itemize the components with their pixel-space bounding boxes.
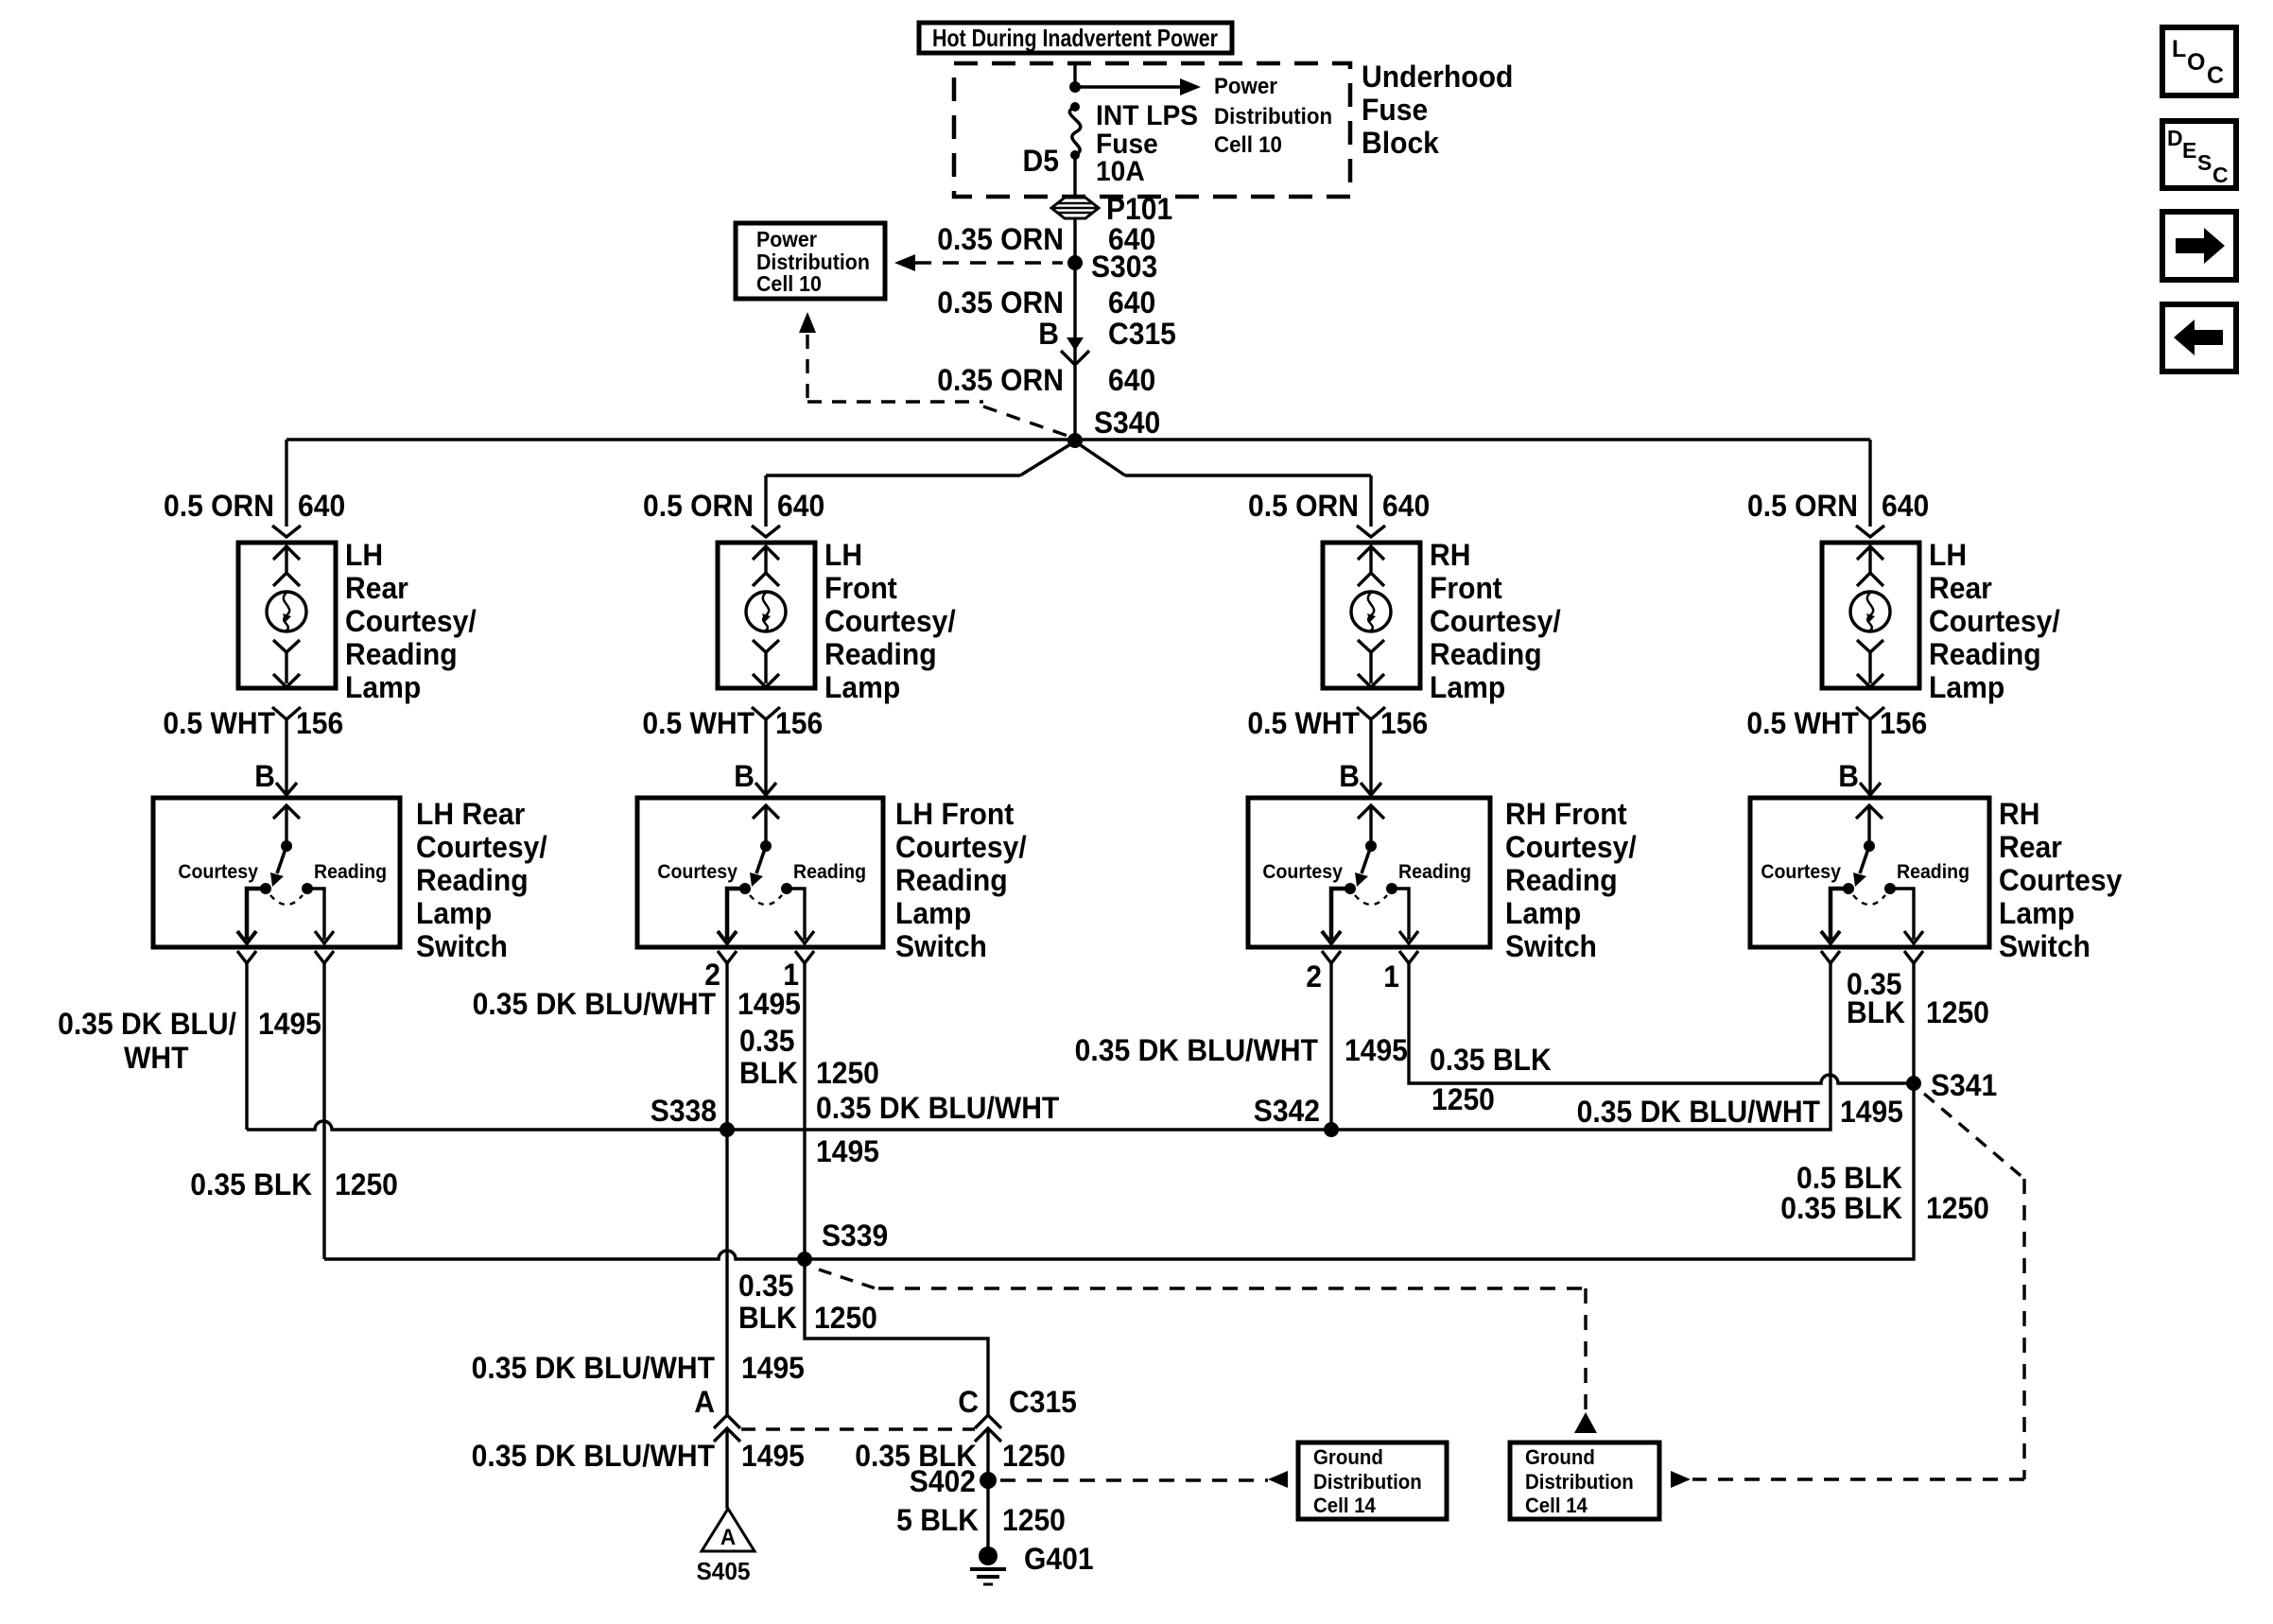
arrow left xyxy=(1268,1471,1288,1488)
svg-text:0.35 DK BLU/WHT: 0.35 DK BLU/WHT xyxy=(472,1439,715,1473)
svg-text:0.5 WHT: 0.5 WHT xyxy=(642,706,755,740)
svg-text:Lamp: Lamp xyxy=(895,896,971,930)
svg-text:D5: D5 xyxy=(1023,144,1059,178)
svg-text:S338: S338 xyxy=(651,1094,717,1128)
svg-text:5 BLK: 5 BLK xyxy=(896,1503,979,1537)
svg-text:0.35 DK BLU/WHT: 0.35 DK BLU/WHT xyxy=(472,1351,715,1385)
svg-text:2: 2 xyxy=(1306,959,1322,993)
svg-text:0.35 DK BLU/WHT: 0.35 DK BLU/WHT xyxy=(473,987,716,1021)
svg-text:C: C xyxy=(2212,163,2229,187)
dashed S402 to Ground Distribution xyxy=(1000,1478,1268,1481)
svg-text:0.35 DK BLU/: 0.35 DK BLU/ xyxy=(58,1007,236,1041)
svg-text:0.35: 0.35 xyxy=(739,1024,795,1058)
wire into fuse block xyxy=(1073,63,1076,86)
svg-text:LH: LH xyxy=(1929,538,1967,572)
svg-text:Underhood: Underhood xyxy=(1362,60,1513,94)
svg-text:1250: 1250 xyxy=(1002,1439,1066,1473)
svg-text:Reading: Reading xyxy=(1398,861,1471,883)
svg-text:S341: S341 xyxy=(1931,1068,1997,1102)
underhood fuse block (dashed box) xyxy=(954,63,1350,197)
svg-text:Courtesy: Courtesy xyxy=(178,861,258,883)
svg-text:Courtesy: Courtesy xyxy=(1999,863,2123,897)
wire 0.5 WHT 156 branch 4 xyxy=(1856,707,1884,719)
node S341 xyxy=(1906,1076,1921,1091)
switch lever 3 xyxy=(1362,846,1371,873)
lamp L1: LH Rear Courtesy/ Reading Lamp xyxy=(238,543,336,688)
svg-text:1495: 1495 xyxy=(258,1007,321,1041)
node S339 xyxy=(797,1252,812,1267)
svg-text:0.5 ORN: 0.5 ORN xyxy=(1248,489,1359,523)
leg chevrons below switch 3 xyxy=(1322,951,1341,963)
svg-text:640: 640 xyxy=(1382,489,1430,523)
wire fuse to P101 xyxy=(1073,157,1076,198)
svg-text:0.5 WHT: 0.5 WHT xyxy=(1247,706,1360,740)
svg-text:Courtesy/: Courtesy/ xyxy=(824,604,956,638)
svg-text:0.35 BLK: 0.35 BLK xyxy=(1430,1043,1552,1077)
svg-text:Distribution: Distribution xyxy=(1313,1470,1422,1494)
svg-text:Reading: Reading xyxy=(1929,637,2041,671)
switch SW2: LH Front Courtesy/ Reading Lamp Switch xyxy=(637,798,883,947)
svg-text:Ground: Ground xyxy=(1313,1445,1383,1469)
svg-text:LH Front: LH Front xyxy=(895,797,1014,831)
svg-text:Lamp: Lamp xyxy=(1929,670,2004,704)
node S338 xyxy=(720,1122,735,1137)
icon arrow left xyxy=(2162,304,2236,371)
svg-text:Hot During Inadvertent Power: Hot During Inadvertent Power xyxy=(932,24,1218,52)
svg-text:Reading: Reading xyxy=(1430,637,1542,671)
wire 0.5 ORN 640 branch 2 xyxy=(764,475,767,527)
svg-text:S402: S402 xyxy=(910,1464,976,1498)
arrow right xyxy=(1671,1471,1691,1488)
svg-text:RH Front: RH Front xyxy=(1505,797,1627,831)
switch SW3: RH Front Courtesy/ Reading Lamp Switch xyxy=(1248,798,1490,947)
svg-text:0.35 BLK: 0.35 BLK xyxy=(1780,1191,1902,1225)
box Ground Distribution Cell 14 (left) xyxy=(1298,1443,1447,1519)
contacts xyxy=(260,883,271,894)
svg-text:O: O xyxy=(2187,49,2205,76)
splice triangle S405 xyxy=(702,1509,755,1551)
svg-text:Lamp: Lamp xyxy=(345,670,421,704)
wire 0.5 WHT 156 branch 1 xyxy=(272,707,301,719)
svg-text:B: B xyxy=(1838,759,1859,793)
svg-text:LH: LH xyxy=(345,538,383,572)
icon LOC xyxy=(2162,27,2236,95)
svg-text:C: C xyxy=(2207,62,2224,89)
svg-text:1250: 1250 xyxy=(1926,1191,1989,1225)
svg-text:0.35 ORN: 0.35 ORN xyxy=(937,222,1064,256)
svg-text:Reading: Reading xyxy=(895,863,1008,897)
svg-text:E: E xyxy=(2182,138,2196,163)
dashed arrow S303 to Power Distribution box xyxy=(915,261,1063,264)
svg-text:0.5 ORN: 0.5 ORN xyxy=(643,489,754,523)
wire 1250 net: to S339 and up to S341 (hop over x769) xyxy=(324,1083,1914,1259)
svg-text:Courtesy/: Courtesy/ xyxy=(416,830,547,864)
svg-text:A: A xyxy=(694,1385,715,1419)
svg-text:Switch: Switch xyxy=(1999,929,2091,963)
svg-text:BLK: BLK xyxy=(739,1056,798,1090)
svg-text:B: B xyxy=(254,759,275,793)
wire: diagonal branches from S340 xyxy=(1020,441,1125,475)
wire label 0.35 ORN 640 xyxy=(937,285,1155,320)
svg-text:Courtesy: Courtesy xyxy=(657,861,737,883)
switch SW4: RH Rear Courtesy Lamp Switch xyxy=(1750,798,1989,947)
svg-text:156: 156 xyxy=(1380,706,1428,740)
svg-text:Lamp: Lamp xyxy=(1999,896,2074,930)
svg-text:B: B xyxy=(1339,759,1360,793)
svg-text:Reading: Reading xyxy=(314,861,387,883)
svg-text:1250: 1250 xyxy=(1431,1082,1495,1116)
svg-text:Reading: Reading xyxy=(1897,861,1969,883)
connector C315 pin B (top) xyxy=(1038,317,1176,351)
svg-text:Distribution: Distribution xyxy=(756,250,870,274)
node S342 xyxy=(1324,1122,1339,1137)
svg-text:LH Rear: LH Rear xyxy=(416,797,525,831)
lamp L2: LH Front Courtesy/ Reading Lamp xyxy=(718,543,815,688)
leg chevrons below switch 4 xyxy=(1821,951,1840,963)
node S402 xyxy=(980,1472,997,1489)
svg-text:Block: Block xyxy=(1362,126,1440,160)
switch lever 1 xyxy=(277,846,286,873)
arrow to Power Distribution Cell 10 (right) xyxy=(1075,85,1180,88)
ground G401 xyxy=(979,1546,998,1565)
fuse INT LPS 10A xyxy=(1070,102,1080,112)
contacts xyxy=(739,883,751,894)
svg-text:Courtesy/: Courtesy/ xyxy=(895,830,1027,864)
svg-text:1250: 1250 xyxy=(335,1167,398,1201)
wire label 0.35 ORN 640 xyxy=(937,363,1155,397)
leg chevrons below switch 2 xyxy=(718,951,737,963)
svg-text:Front: Front xyxy=(824,571,897,605)
svg-text:640: 640 xyxy=(1108,363,1155,397)
svg-text:Switch: Switch xyxy=(1505,929,1597,963)
svg-text:Courtesy/: Courtesy/ xyxy=(1505,830,1637,864)
svg-text:0.35 DK BLU/WHT: 0.35 DK BLU/WHT xyxy=(1577,1095,1820,1129)
bulb circle lamp 4 xyxy=(1850,592,1890,631)
wire: S339 down to C315 pin C xyxy=(805,1259,988,1415)
svg-text:S340: S340 xyxy=(1094,406,1160,440)
svg-text:Fuse: Fuse xyxy=(1362,93,1428,127)
svg-text:Courtesy/: Courtesy/ xyxy=(1430,604,1561,638)
svg-text:156: 156 xyxy=(1880,706,1927,740)
svg-text:Lamp: Lamp xyxy=(1430,670,1505,704)
switch SW1: LH Rear Courtesy/ Reading Lamp Switch xyxy=(153,798,400,947)
svg-text:Reading: Reading xyxy=(1505,863,1618,897)
svg-text:Switch: Switch xyxy=(895,929,987,963)
wire: main feed bus from S340 xyxy=(286,438,1870,441)
svg-text:Power: Power xyxy=(1214,73,1277,98)
svg-text:RH: RH xyxy=(1999,797,2039,831)
svg-text:Front: Front xyxy=(1430,571,1502,605)
svg-text:640: 640 xyxy=(1882,489,1929,523)
svg-text:Rear: Rear xyxy=(1999,830,2062,864)
svg-text:Distribution: Distribution xyxy=(1525,1470,1634,1494)
svg-text:0.35 DK BLU/WHT: 0.35 DK BLU/WHT xyxy=(1075,1033,1318,1067)
svg-text:A: A xyxy=(720,1524,736,1549)
svg-text:L: L xyxy=(2172,36,2186,62)
svg-text:0.35 DK BLU/WHT: 0.35 DK BLU/WHT xyxy=(816,1091,1059,1125)
svg-text:1495: 1495 xyxy=(737,987,801,1021)
svg-text:640: 640 xyxy=(1108,285,1155,320)
svg-text:0.35: 0.35 xyxy=(738,1269,794,1303)
svg-text:640: 640 xyxy=(777,489,824,523)
wire: SW2 legs down xyxy=(727,963,805,1259)
contacts xyxy=(1843,883,1854,894)
dashed route S341 to Ground Distribution (right) xyxy=(1924,1094,2024,1179)
contacts xyxy=(1345,883,1356,894)
svg-text:BLK: BLK xyxy=(1847,995,1905,1029)
bulb circle lamp 2 xyxy=(746,592,786,631)
svg-text:0.35 BLK: 0.35 BLK xyxy=(190,1167,312,1201)
svg-text:Courtesy: Courtesy xyxy=(1262,861,1343,883)
svg-text:Reading: Reading xyxy=(416,863,529,897)
svg-text:Distribution: Distribution xyxy=(1214,103,1332,129)
svg-text:1250: 1250 xyxy=(1926,995,1989,1029)
svg-text:BLK: BLK xyxy=(738,1301,797,1335)
svg-text:1250: 1250 xyxy=(1002,1503,1066,1537)
svg-text:S303: S303 xyxy=(1091,250,1157,284)
icon DESC xyxy=(2162,121,2236,188)
wire: S338 down to connector C315 pin A xyxy=(725,1130,728,1415)
svg-text:1495: 1495 xyxy=(1345,1033,1408,1067)
svg-text:Cell 14: Cell 14 xyxy=(1313,1494,1376,1517)
svg-text:S339: S339 xyxy=(822,1218,888,1253)
svg-text:1: 1 xyxy=(1383,959,1399,993)
wire label 0.35 ORN 640 xyxy=(937,222,1155,256)
svg-text:Ground: Ground xyxy=(1525,1445,1595,1469)
box Power Distribution Cell 10 (left) xyxy=(736,223,885,299)
node S340 xyxy=(1067,433,1083,448)
svg-text:0.5 ORN: 0.5 ORN xyxy=(164,489,274,523)
title box "Hot During Inadvertent Power" xyxy=(919,23,1232,53)
svg-text:Courtesy/: Courtesy/ xyxy=(1929,604,2060,638)
svg-text:INT LPS: INT LPS xyxy=(1096,100,1198,131)
leg chevrons below switch 1 xyxy=(237,951,256,963)
svg-text:C315: C315 xyxy=(1108,317,1176,351)
svg-text:S: S xyxy=(2197,150,2212,175)
lamp L3: RH Front Courtesy/ Reading Lamp xyxy=(1323,543,1420,688)
dashed route S339 to Ground Distribution (right box) xyxy=(819,1270,878,1289)
svg-text:640: 640 xyxy=(298,489,345,523)
svg-text:0.5 WHT: 0.5 WHT xyxy=(1746,706,1859,740)
svg-text:Cell 10: Cell 10 xyxy=(1214,131,1282,157)
svg-text:1495: 1495 xyxy=(741,1351,805,1385)
wire: SW4 right leg down xyxy=(1912,963,1915,1083)
svg-text:Cell 10: Cell 10 xyxy=(756,271,822,296)
wire 0.5 ORN 640 branch 4 xyxy=(1868,440,1871,527)
connector C315 pin C chevrons xyxy=(975,1415,1001,1442)
svg-text:Reading: Reading xyxy=(345,637,458,671)
wire 0.5 WHT 156 branch 3 xyxy=(1357,707,1385,719)
svg-text:Cell 14: Cell 14 xyxy=(1525,1494,1588,1517)
wire: SW1 reading leg down xyxy=(322,963,325,1259)
svg-text:P101: P101 xyxy=(1106,192,1172,226)
svg-text:10A: 10A xyxy=(1096,156,1145,187)
wire P101 to S340 xyxy=(1073,218,1076,440)
svg-text:0.5 BLK: 0.5 BLK xyxy=(1796,1161,1903,1195)
svg-text:1250: 1250 xyxy=(816,1056,879,1090)
node S303 xyxy=(1067,255,1083,270)
svg-text:S405: S405 xyxy=(696,1558,750,1585)
svg-text:Switch: Switch xyxy=(416,929,508,963)
wire: SW1 courtesy leg down xyxy=(245,963,248,1130)
svg-text:Reading: Reading xyxy=(824,637,937,671)
svg-text:1495: 1495 xyxy=(741,1439,805,1473)
svg-text:Rear: Rear xyxy=(1929,571,1992,605)
svg-text:156: 156 xyxy=(775,706,823,740)
svg-text:0.35 ORN: 0.35 ORN xyxy=(937,285,1064,320)
svg-text:Lamp: Lamp xyxy=(824,670,900,704)
wire 1495 net: S338 - S342 - SW4 left leg (with hop over x343) xyxy=(247,963,1831,1130)
svg-text:1495: 1495 xyxy=(1840,1095,1903,1129)
svg-text:Reading: Reading xyxy=(793,861,866,883)
svg-text:D: D xyxy=(2167,126,2183,150)
switch lever 2 xyxy=(756,846,766,873)
svg-text:1250: 1250 xyxy=(814,1301,877,1335)
svg-text:Courtesy/: Courtesy/ xyxy=(345,604,477,638)
dashed connector line C315 xyxy=(741,1427,975,1430)
svg-text:C315: C315 xyxy=(1009,1385,1077,1419)
connector P101 (grommet) xyxy=(1051,198,1099,218)
svg-text:LH: LH xyxy=(824,538,862,572)
svg-text:156: 156 xyxy=(296,706,343,740)
dashed route S340 to Power Distribution box xyxy=(799,312,816,333)
svg-text:S342: S342 xyxy=(1254,1094,1320,1128)
svg-text:B: B xyxy=(1038,317,1059,351)
svg-text:0.5 ORN: 0.5 ORN xyxy=(1747,489,1858,523)
wire 0.5 ORN 640 branch 1 xyxy=(285,440,287,527)
svg-text:0.5 WHT: 0.5 WHT xyxy=(163,706,275,740)
box Ground Distribution Cell 14 (right) xyxy=(1510,1443,1659,1519)
wire: SW3 leg1 to S341 (hop over x1936) xyxy=(1409,963,1914,1083)
svg-text:C: C xyxy=(958,1385,979,1419)
bulb circle lamp 1 xyxy=(267,592,306,631)
wire: SW3 leg2 down to S342 xyxy=(1329,963,1332,1130)
svg-text:1495: 1495 xyxy=(816,1134,879,1168)
svg-text:Rear: Rear xyxy=(345,571,408,605)
svg-text:RH: RH xyxy=(1430,538,1470,572)
lamp L4: LH Rear Courtesy/ Reading Lamp xyxy=(1822,543,1919,688)
node: branch dot in fuse block xyxy=(1069,81,1081,93)
svg-text:Lamp: Lamp xyxy=(1505,896,1581,930)
icon arrow right xyxy=(2162,212,2236,280)
svg-text:Lamp: Lamp xyxy=(416,896,492,930)
wire 0.5 ORN 640 branch 3 xyxy=(1369,475,1372,527)
bulb circle lamp 3 xyxy=(1351,592,1391,631)
svg-text:WHT: WHT xyxy=(124,1041,189,1075)
svg-text:Courtesy: Courtesy xyxy=(1761,861,1841,883)
svg-text:Power: Power xyxy=(756,227,817,251)
connector C315 pin A chevrons xyxy=(714,1415,740,1442)
svg-text:G401: G401 xyxy=(1024,1542,1094,1576)
svg-text:0.35 ORN: 0.35 ORN xyxy=(937,363,1064,397)
svg-text:B: B xyxy=(734,759,755,793)
wire 0.5 WHT 156 branch 2 xyxy=(752,707,780,719)
switch lever 4 xyxy=(1860,846,1869,873)
